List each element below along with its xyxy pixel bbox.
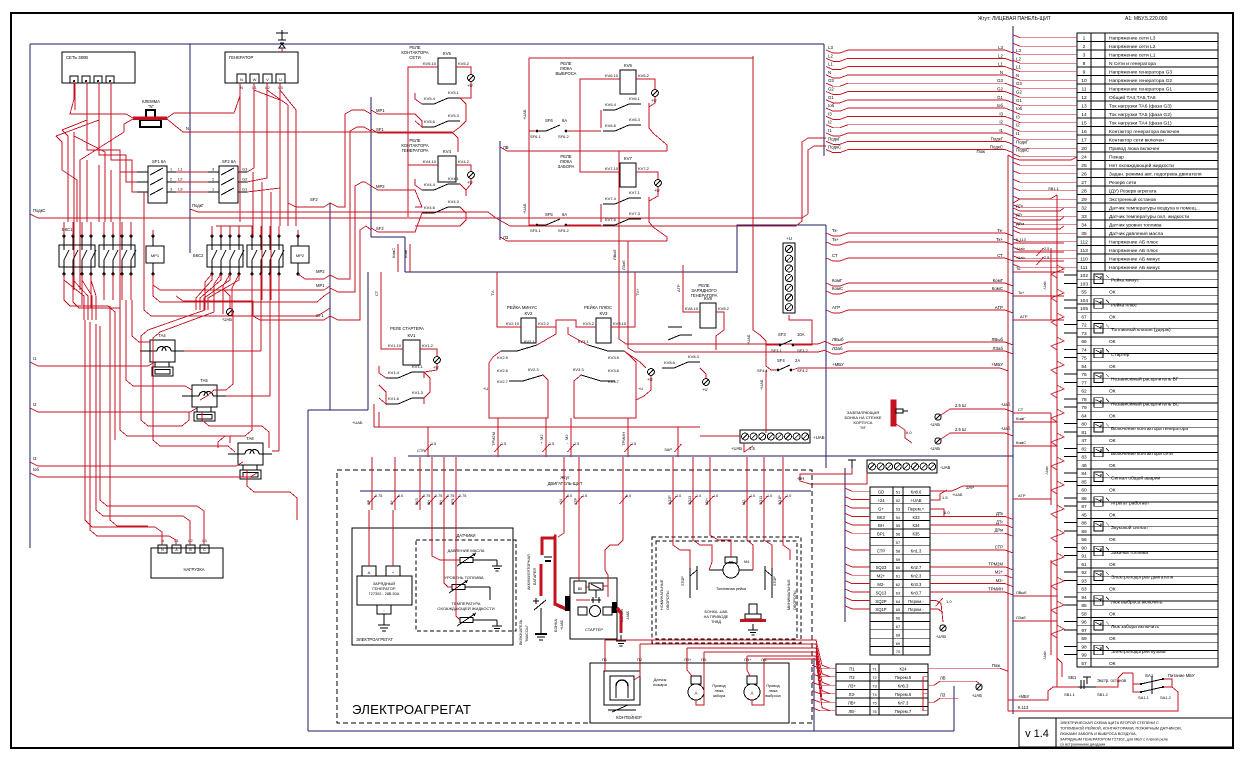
svg-text:3: 3 <box>1083 53 1086 59</box>
svg-text:+UАБ: +UАБ <box>352 420 363 425</box>
svg-text:Кл2.7: Кл2.7 <box>911 565 922 570</box>
svg-text:Кл1.3: Кл1.3 <box>911 548 922 553</box>
svg-text:Напряжение АБ плюс: Напряжение АБ плюс <box>1109 240 1159 246</box>
svg-text:13: 13 <box>1081 104 1087 110</box>
svg-text:КV3.1: КV3.1 <box>578 339 589 344</box>
svg-text:SB1.2: SB1.2 <box>1097 692 1109 697</box>
lamp -UАБ П table <box>976 684 982 690</box>
wire ПодкС <box>826 150 1013 153</box>
svg-text:2: 2 <box>212 178 214 182</box>
svg-text:Кл3.7: Кл3.7 <box>911 590 922 595</box>
svg-text:КV2: КV2 <box>525 311 533 316</box>
svg-text:G1: G1 <box>828 95 834 100</box>
svg-text:52: 52 <box>896 498 901 503</box>
svg-text:1: 1 <box>1083 36 1086 42</box>
svg-text:2А: 2А <box>795 358 800 363</box>
svg-text:1.5: 1.5 <box>942 495 948 500</box>
wires GD table left jogs <box>845 488 870 491</box>
svg-text:60: 60 <box>1081 488 1087 494</box>
svg-text:72: 72 <box>872 675 877 680</box>
svg-text:Рейка плюс: Рейка плюс <box>1111 301 1138 308</box>
svg-text:КомГ: КомГ <box>403 248 408 258</box>
svg-text:KV4.1: KV4.1 <box>448 176 460 181</box>
wires x330 to x371 risers <box>330 110 371 207</box>
svg-text:0.75: 0.75 <box>459 494 466 498</box>
svg-text:Задан. режима авт. подогрева д: Задан. режима авт. подогрева двигателя <box>1109 172 1202 178</box>
svg-text:77: 77 <box>1081 380 1087 386</box>
bottom boundary line <box>308 730 954 732</box>
wire 2.5 Ш lower <box>941 433 1013 439</box>
lamp KV7 +U <box>655 180 662 187</box>
svg-text:ОК: ОК <box>1109 562 1116 568</box>
svg-text:(ДУ) Резерв агрегата: (ДУ) Резерв агрегата <box>1109 189 1157 195</box>
wire Перем+ row53 <box>930 509 944 516</box>
svg-text:ЛЗ+: ЛЗ+ <box>684 657 692 662</box>
svg-text:Пожар: Пожар <box>1109 155 1124 161</box>
svg-text:KV1.3: KV1.3 <box>412 390 424 395</box>
wire battery plus thick to starter <box>554 536 566 609</box>
svg-text:I2: I2 <box>1016 123 1020 128</box>
svg-text:НАГРУЗКА: НАГРУЗКА <box>183 567 204 572</box>
fuse М2+ <box>545 418 547 457</box>
svg-text:Ток нагрузки ТА6 (фаза G3): Ток нагрузки ТА6 (фаза G3) <box>1109 104 1172 110</box>
svg-text:Г27302 - 28В 50А: Г27302 - 28В 50А <box>369 592 400 596</box>
svg-text:АГР: АГР <box>1020 314 1028 319</box>
svg-text:МР2: МР2 <box>316 269 325 274</box>
ground symbol generator <box>281 30 283 40</box>
svg-text:8: 8 <box>1083 61 1086 67</box>
svg-text:L1: L1 <box>178 167 183 172</box>
svg-text:КV4: КV4 <box>443 149 451 154</box>
svg-text:KV2.2: KV2.2 <box>538 321 550 326</box>
svg-text:П2: П2 <box>849 675 855 680</box>
wires SA1 <box>1133 673 1141 684</box>
svg-text:В: В <box>189 548 192 552</box>
svg-text:64: 64 <box>896 599 901 604</box>
svg-text:ВКЗ: ВКЗ <box>415 498 419 505</box>
wires KV1 <box>381 272 403 349</box>
svg-text:6А: 6А <box>562 212 567 217</box>
svg-text:ЛВыб: ЛВыб <box>1016 590 1027 595</box>
svg-text:103: 103 <box>1080 281 1088 287</box>
svg-text:SQ13: SQ13 <box>876 590 887 595</box>
svg-text:А: А <box>368 570 371 575</box>
svg-text:АГР: АГР <box>995 305 1003 310</box>
svg-text:87: 87 <box>1081 504 1087 510</box>
svg-text:Люк забора включить: Люк забора включить <box>1111 624 1159 630</box>
harness line y457 <box>408 455 820 457</box>
wire Тк+ <box>826 242 1013 245</box>
wires mid verticals down <box>120 300 230 443</box>
svg-text:+U: +U <box>467 180 472 185</box>
svg-text:G+: G+ <box>390 500 394 505</box>
terminal table optocoupler section <box>1077 271 1218 667</box>
svg-text:ТРМИН: ТРМИН <box>988 587 1003 592</box>
svg-text:Iоб: Iоб <box>1016 106 1023 111</box>
svg-text:71: 71 <box>872 666 877 671</box>
svg-text:KV1.4: KV1.4 <box>388 370 400 375</box>
svg-text:55: 55 <box>896 523 901 528</box>
svg-text:1.0: 1.0 <box>676 494 681 498</box>
svg-text:МР1: МР1 <box>151 253 160 258</box>
wire Тк- row 102 <box>1013 271 1064 273</box>
svg-text:59: 59 <box>1081 636 1087 642</box>
fuse СТР tick <box>578 457 580 510</box>
svg-text:105: 105 <box>1080 306 1088 312</box>
svg-text:П1: П1 <box>849 666 855 671</box>
fuse ВН tick <box>443 457 445 510</box>
svg-text:Общий ТА4,ТА5,ТА6: Общий ТА4,ТА5,ТА6 <box>1109 94 1156 101</box>
wires СЕТЬ long verticals <box>74 83 76 110</box>
svg-text:6.0: 6.0 <box>906 430 912 435</box>
lamp KV1 +U <box>434 357 441 364</box>
svg-text:G2: G2 <box>828 87 834 92</box>
svg-text:16: 16 <box>1081 129 1087 135</box>
svg-text:GD: GD <box>878 490 884 495</box>
svg-text:Тк-: Тк- <box>832 228 838 233</box>
svg-text:V: V <box>266 77 269 82</box>
svg-text:27: 27 <box>1081 180 1087 186</box>
svg-text:Экстренный останов: Экстренный останов <box>1109 196 1156 203</box>
svg-text:ДТк: ДТк <box>1016 203 1023 208</box>
wire СТ <box>826 258 1013 261</box>
lamp KV6 +U <box>652 90 659 97</box>
wires load feed verticals <box>85 320 162 545</box>
svg-text:+UАБ: +UАБ <box>522 109 527 120</box>
panel divider relay column inner <box>370 97 372 237</box>
wire КомС <box>826 291 1013 294</box>
svg-text:3: 3 <box>170 188 172 192</box>
connector table GD <box>870 487 930 655</box>
svg-text:ЛВ: ЛВ <box>940 675 946 680</box>
starter motor <box>590 606 601 617</box>
svg-text:ВР1: ВР1 <box>877 532 886 537</box>
wire Пож <box>928 668 1008 671</box>
wires KV5 <box>408 67 438 217</box>
svg-text:35: 35 <box>1081 231 1087 237</box>
svg-text:20: 20 <box>1081 146 1087 152</box>
wire АГР group10 <box>1013 498 1051 500</box>
svg-text:ПодкГ: ПодкГ <box>192 203 205 208</box>
svg-text:SQ1Р: SQ1Р <box>778 495 782 505</box>
svg-text:G+: G+ <box>878 506 884 511</box>
wire МР1 exit <box>153 274 330 290</box>
svg-text:-Uab: -Uab <box>1044 466 1049 475</box>
wire +UAB top horizontal <box>529 57 753 59</box>
svg-text:I1: I1 <box>828 128 832 133</box>
fuse ТРМИН <box>627 418 629 457</box>
svg-text:KV1.10: KV1.10 <box>388 343 402 348</box>
svg-text:+UАБ: +UАБ <box>813 435 825 440</box>
wires БКС1 bottom extra verticals <box>64 274 115 440</box>
svg-text:К.113: К.113 <box>1018 705 1029 710</box>
fuse SQ23 tick <box>692 457 694 510</box>
svg-text:Кл7.3: Кл7.3 <box>898 700 909 705</box>
boundary vertical x814 <box>813 658 815 731</box>
svg-text:ЛВыб: ЛВыб <box>832 337 844 342</box>
svg-text:75: 75 <box>872 700 877 705</box>
svg-text:Топливный клапан (удерж): Топливный клапан (удерж) <box>1111 326 1171 333</box>
wire -ВН <box>800 468 867 484</box>
svg-text:SF4.1: SF4.1 <box>757 368 768 373</box>
wires KV7 <box>580 84 620 172</box>
panel boundary right vertical <box>825 225 827 455</box>
svg-text:Перем.-: Перем.- <box>908 599 924 604</box>
svg-text:М2-: М2- <box>877 582 885 587</box>
svg-text:ПодкС: ПодкС <box>990 145 1003 150</box>
wire КомГ riser <box>409 244 411 272</box>
svg-text:56: 56 <box>896 532 901 537</box>
wire connectors bus to table rows <box>1013 35 1077 38</box>
svg-text:SB1: SB1 <box>1068 675 1077 680</box>
svg-text:KV7.1: KV7.1 <box>629 190 641 195</box>
svg-text:М2-: М2- <box>742 498 746 505</box>
svg-text:А: А <box>175 548 178 552</box>
fuse SQ2Р tick <box>672 457 674 510</box>
svg-text:А: А <box>751 691 754 696</box>
svg-text:I2: I2 <box>828 120 832 125</box>
svg-text:79: 79 <box>1081 405 1087 411</box>
svg-text:-UАБ: -UАБ <box>930 446 940 451</box>
svg-text:SQ1Р: SQ1Р <box>875 607 886 612</box>
svg-text:КV3.3: КV3.3 <box>573 367 584 372</box>
svg-text:L2: L2 <box>265 86 269 90</box>
wires БКС1 feed from top <box>63 222 65 236</box>
svg-text:-UАБ: -UАБ <box>936 634 946 639</box>
svg-text:KV1.2: KV1.2 <box>422 343 434 348</box>
svg-text:Агрегат работает: Агрегат работает <box>1111 500 1150 506</box>
svg-text:Пож: Пож <box>992 663 1000 668</box>
box КОНТЕЙНЕР <box>590 663 789 723</box>
svg-text:L1: L1 <box>828 62 833 67</box>
wire ПодкГ <box>190 209 503 222</box>
svg-text:L2: L2 <box>178 177 183 182</box>
svg-text:К24: К24 <box>899 666 907 671</box>
box ЭЛЕКТРОАГРЕГАТ inner <box>352 528 513 645</box>
svg-text:Iоб: Iоб <box>997 103 1004 108</box>
svg-text:ЛВыб: ЛВыб <box>992 337 1004 342</box>
svg-text:СТ: СТ <box>374 290 379 296</box>
svg-text:ТРМ2М: ТРМ2М <box>491 432 496 446</box>
svg-text:+МБУ: +МБУ <box>832 362 844 367</box>
svg-text:Перем.5: Перем.5 <box>895 675 912 680</box>
svg-text:Датчик уровня топлива: Датчик уровня топлива <box>1109 223 1162 229</box>
svg-text:v 1.4: v 1.4 <box>1025 728 1049 740</box>
lamp -UАБ left <box>227 309 234 316</box>
wire ДРм to row 34 <box>1013 226 1064 229</box>
wire -Uab 2.5 row 110 <box>1013 260 1064 262</box>
svg-text:ЛЗаб: ЛЗаб <box>832 346 843 351</box>
svg-text:+UАБ: +UАБ <box>952 492 963 497</box>
svg-text:Нет охлаждающей жидкости: Нет охлаждающей жидкости <box>1109 162 1174 169</box>
svg-text:М2-: М2- <box>996 578 1004 583</box>
lamp KV3 +U <box>648 369 655 376</box>
svg-text:+UАБ: +UАБ <box>731 446 742 451</box>
wire +UАБ riser to SF6 <box>529 58 536 131</box>
svg-text:ОК: ОК <box>1109 488 1116 494</box>
svg-text:54: 54 <box>896 515 901 520</box>
svg-text:74: 74 <box>872 692 877 697</box>
svg-text:Пож: Пож <box>977 149 986 154</box>
wire SF1 exit <box>176 296 330 320</box>
svg-text:80: 80 <box>1081 422 1087 428</box>
svg-text:N: N <box>1016 73 1019 78</box>
svg-text:ОХЛАЖДАЮЩЕЙ ЖИДКОСТИ: ОХЛАЖДАЮЩЕЙ ЖИДКОСТИ <box>437 606 494 611</box>
wire generator ground <box>281 48 283 52</box>
lamp KV5 +U <box>468 75 475 82</box>
wire Пож long vertical <box>1007 155 1009 668</box>
fire sensor <box>604 671 640 705</box>
svg-text:72: 72 <box>1081 323 1087 329</box>
svg-text:АККУМУЛЯТОРНАЯ: АККУМУЛЯТОРНАЯ <box>527 554 531 590</box>
lamp KV8 +U <box>703 379 710 386</box>
svg-text:-Uаб: -Uаб <box>1001 402 1011 407</box>
svg-text:I1: I1 <box>999 128 1003 133</box>
svg-text:Сигнал общей аварии: Сигнал общей аварии <box>1111 475 1161 482</box>
wires БКС2 bottom verticals to ТА <box>218 274 252 448</box>
wire bonka to lamp <box>896 424 912 443</box>
svg-text:+UАБ: +UАБ <box>910 498 921 503</box>
svg-text:ТА5: ТА5 <box>200 378 208 383</box>
svg-text:89: 89 <box>1081 529 1087 535</box>
svg-text:110: 110 <box>1080 257 1088 263</box>
svg-text:54: 54 <box>1081 364 1087 370</box>
ground generator minus <box>383 614 385 625</box>
lamp -UАБ GD <box>940 625 946 631</box>
fuse М2+ tick <box>709 457 711 510</box>
svg-text:-UАБ: -UАБ <box>222 317 232 322</box>
svg-text:ОК: ОК <box>1109 661 1116 667</box>
svg-text:KV4.2: KV4.2 <box>458 159 470 164</box>
svg-text:SB1.1: SB1.1 <box>1048 186 1060 191</box>
svg-text:17: 17 <box>1081 138 1087 144</box>
panel divider relay column left <box>329 203 331 410</box>
svg-text:Iоб: Iоб <box>33 467 39 472</box>
svg-text:Напряжение АБ минус: Напряжение АБ минус <box>1109 265 1161 271</box>
svg-text:L3: L3 <box>202 539 206 543</box>
svg-text:АГР: АГР <box>676 284 681 292</box>
wire ТА6 bottom exit <box>247 470 297 520</box>
wire Пож vertical right <box>1007 668 1009 711</box>
svg-text:-Uаб: -Uаб <box>1001 426 1011 431</box>
svg-text:1.0: 1.0 <box>786 494 791 498</box>
svg-text:СТР: СТР <box>417 448 425 453</box>
wires SF4 <box>766 345 777 370</box>
svg-text:KV7.6: KV7.6 <box>605 217 617 222</box>
svg-text:61: 61 <box>1081 562 1087 568</box>
fuse engine tick <box>622 457 624 510</box>
svg-text:Ток нагрузки ТА5 (фаза G2): Ток нагрузки ТА5 (фаза G2) <box>1109 112 1172 118</box>
svg-text:46: 46 <box>1081 463 1087 469</box>
terminal strip -UАБ <box>867 460 937 473</box>
wire ЛЗ from П table <box>928 698 958 702</box>
wire МР2 exit <box>298 274 330 279</box>
svg-text:ПодкГ: ПодкГ <box>828 136 841 141</box>
svg-text:ОБОРОТЫ: ОБОРОТЫ <box>793 590 797 610</box>
svg-text:ТРМ2М: ТРМ2М <box>988 561 1003 566</box>
wire Перем- rows to lamp <box>930 600 943 622</box>
svg-text:10: 10 <box>1081 78 1087 84</box>
svg-text:-Uab: -Uab <box>1016 255 1025 260</box>
svg-text:96: 96 <box>1081 620 1087 626</box>
wire ЛЗаб group15 <box>1013 620 1057 622</box>
svg-text:Напряжение сети L3: Напряжение сети L3 <box>1109 36 1156 42</box>
wire 2.5 Ш upper <box>941 409 1013 415</box>
svg-text:SQ13: SQ13 <box>759 496 763 505</box>
lamp KV4 +U <box>468 172 475 179</box>
svg-text:76: 76 <box>1081 372 1087 378</box>
wire luk feeders to x826 <box>626 341 826 344</box>
svg-text:ПодкГ: ПодкГ <box>1016 139 1029 144</box>
svg-text:73: 73 <box>1081 331 1087 337</box>
svg-text:10А: 10А <box>797 332 805 337</box>
svg-text:N: N <box>186 126 189 131</box>
svg-text:L2: L2 <box>828 53 833 58</box>
svg-text:SF2 6А: SF2 6А <box>222 159 236 164</box>
contact KV3.3 row <box>581 375 601 381</box>
svg-text:G2: G2 <box>242 177 248 182</box>
svg-text:ВР1: ВР1 <box>451 498 455 505</box>
svg-text:SF6.2: SF6.2 <box>558 134 569 139</box>
svg-text:63: 63 <box>896 590 901 595</box>
wire СТ row 74 <box>1013 412 1051 414</box>
svg-text:Рейка минус: Рейка минус <box>1111 277 1140 284</box>
svg-text:66: 66 <box>896 616 901 621</box>
svg-text:G3: G3 <box>828 78 834 83</box>
svg-text:L1: L1 <box>1016 65 1021 70</box>
svg-text:ОК: ОК <box>1109 339 1116 345</box>
svg-text:KV6.1: KV6.1 <box>629 96 641 101</box>
svg-text:КомС: КомС <box>832 286 843 291</box>
charging generator <box>362 566 376 576</box>
wire ЗАР from GD <box>930 486 1008 491</box>
svg-text:СТ: СТ <box>1018 407 1024 412</box>
svg-text:МР1: МР1 <box>316 283 325 288</box>
svg-text:ЛЗаб: ЛЗаб <box>993 346 1004 351</box>
svg-text:SQ23: SQ23 <box>688 496 692 505</box>
svg-text:KV1.6: KV1.6 <box>388 396 400 401</box>
svg-text:KV3.5: KV3.5 <box>608 355 620 360</box>
svg-text:3: 3 <box>212 168 214 172</box>
svg-text:ДТк: ДТк <box>996 511 1003 516</box>
svg-text:ЛВ+: ЛВ+ <box>848 700 857 705</box>
svg-text:51: 51 <box>896 490 901 495</box>
svg-text:76: 76 <box>872 709 877 714</box>
svg-text:24: 24 <box>1081 155 1087 161</box>
svg-text:95: 95 <box>1081 603 1087 609</box>
svg-text:СТР: СТР <box>877 548 885 553</box>
svg-text:Датчик температуры воздуха в п: Датчик температуры воздуха в помещ... <box>1109 206 1200 212</box>
svg-text:АГР: АГР <box>1018 493 1026 498</box>
svg-text:83: 83 <box>1081 455 1087 461</box>
svg-text:СЕТЬ 380В: СЕТЬ 380В <box>66 55 88 60</box>
svg-text:KV4.3: KV4.3 <box>448 199 460 204</box>
fuel rail motor М4 <box>723 562 739 578</box>
svg-text:ЛЗ+: ЛЗ+ <box>848 683 856 688</box>
svg-text:ОР: ОР <box>367 499 371 505</box>
svg-text:МИНИМАЛЬНЫЕ: МИНИМАЛЬНЫЕ <box>787 579 791 610</box>
svg-text:"МАССЫ": "МАССЫ" <box>525 624 529 642</box>
terminal strip box boundary <box>737 225 826 273</box>
svg-text:SA1: SA1 <box>1145 673 1154 678</box>
svg-text:W: W <box>253 77 257 82</box>
wires container to П table <box>604 640 606 663</box>
wires charging generator <box>368 510 370 566</box>
svg-text:-UАБ: -UАБ <box>930 422 940 427</box>
svg-text:88: 88 <box>1081 521 1087 527</box>
hatch drive забор <box>688 684 704 700</box>
wire N <box>826 75 1013 78</box>
